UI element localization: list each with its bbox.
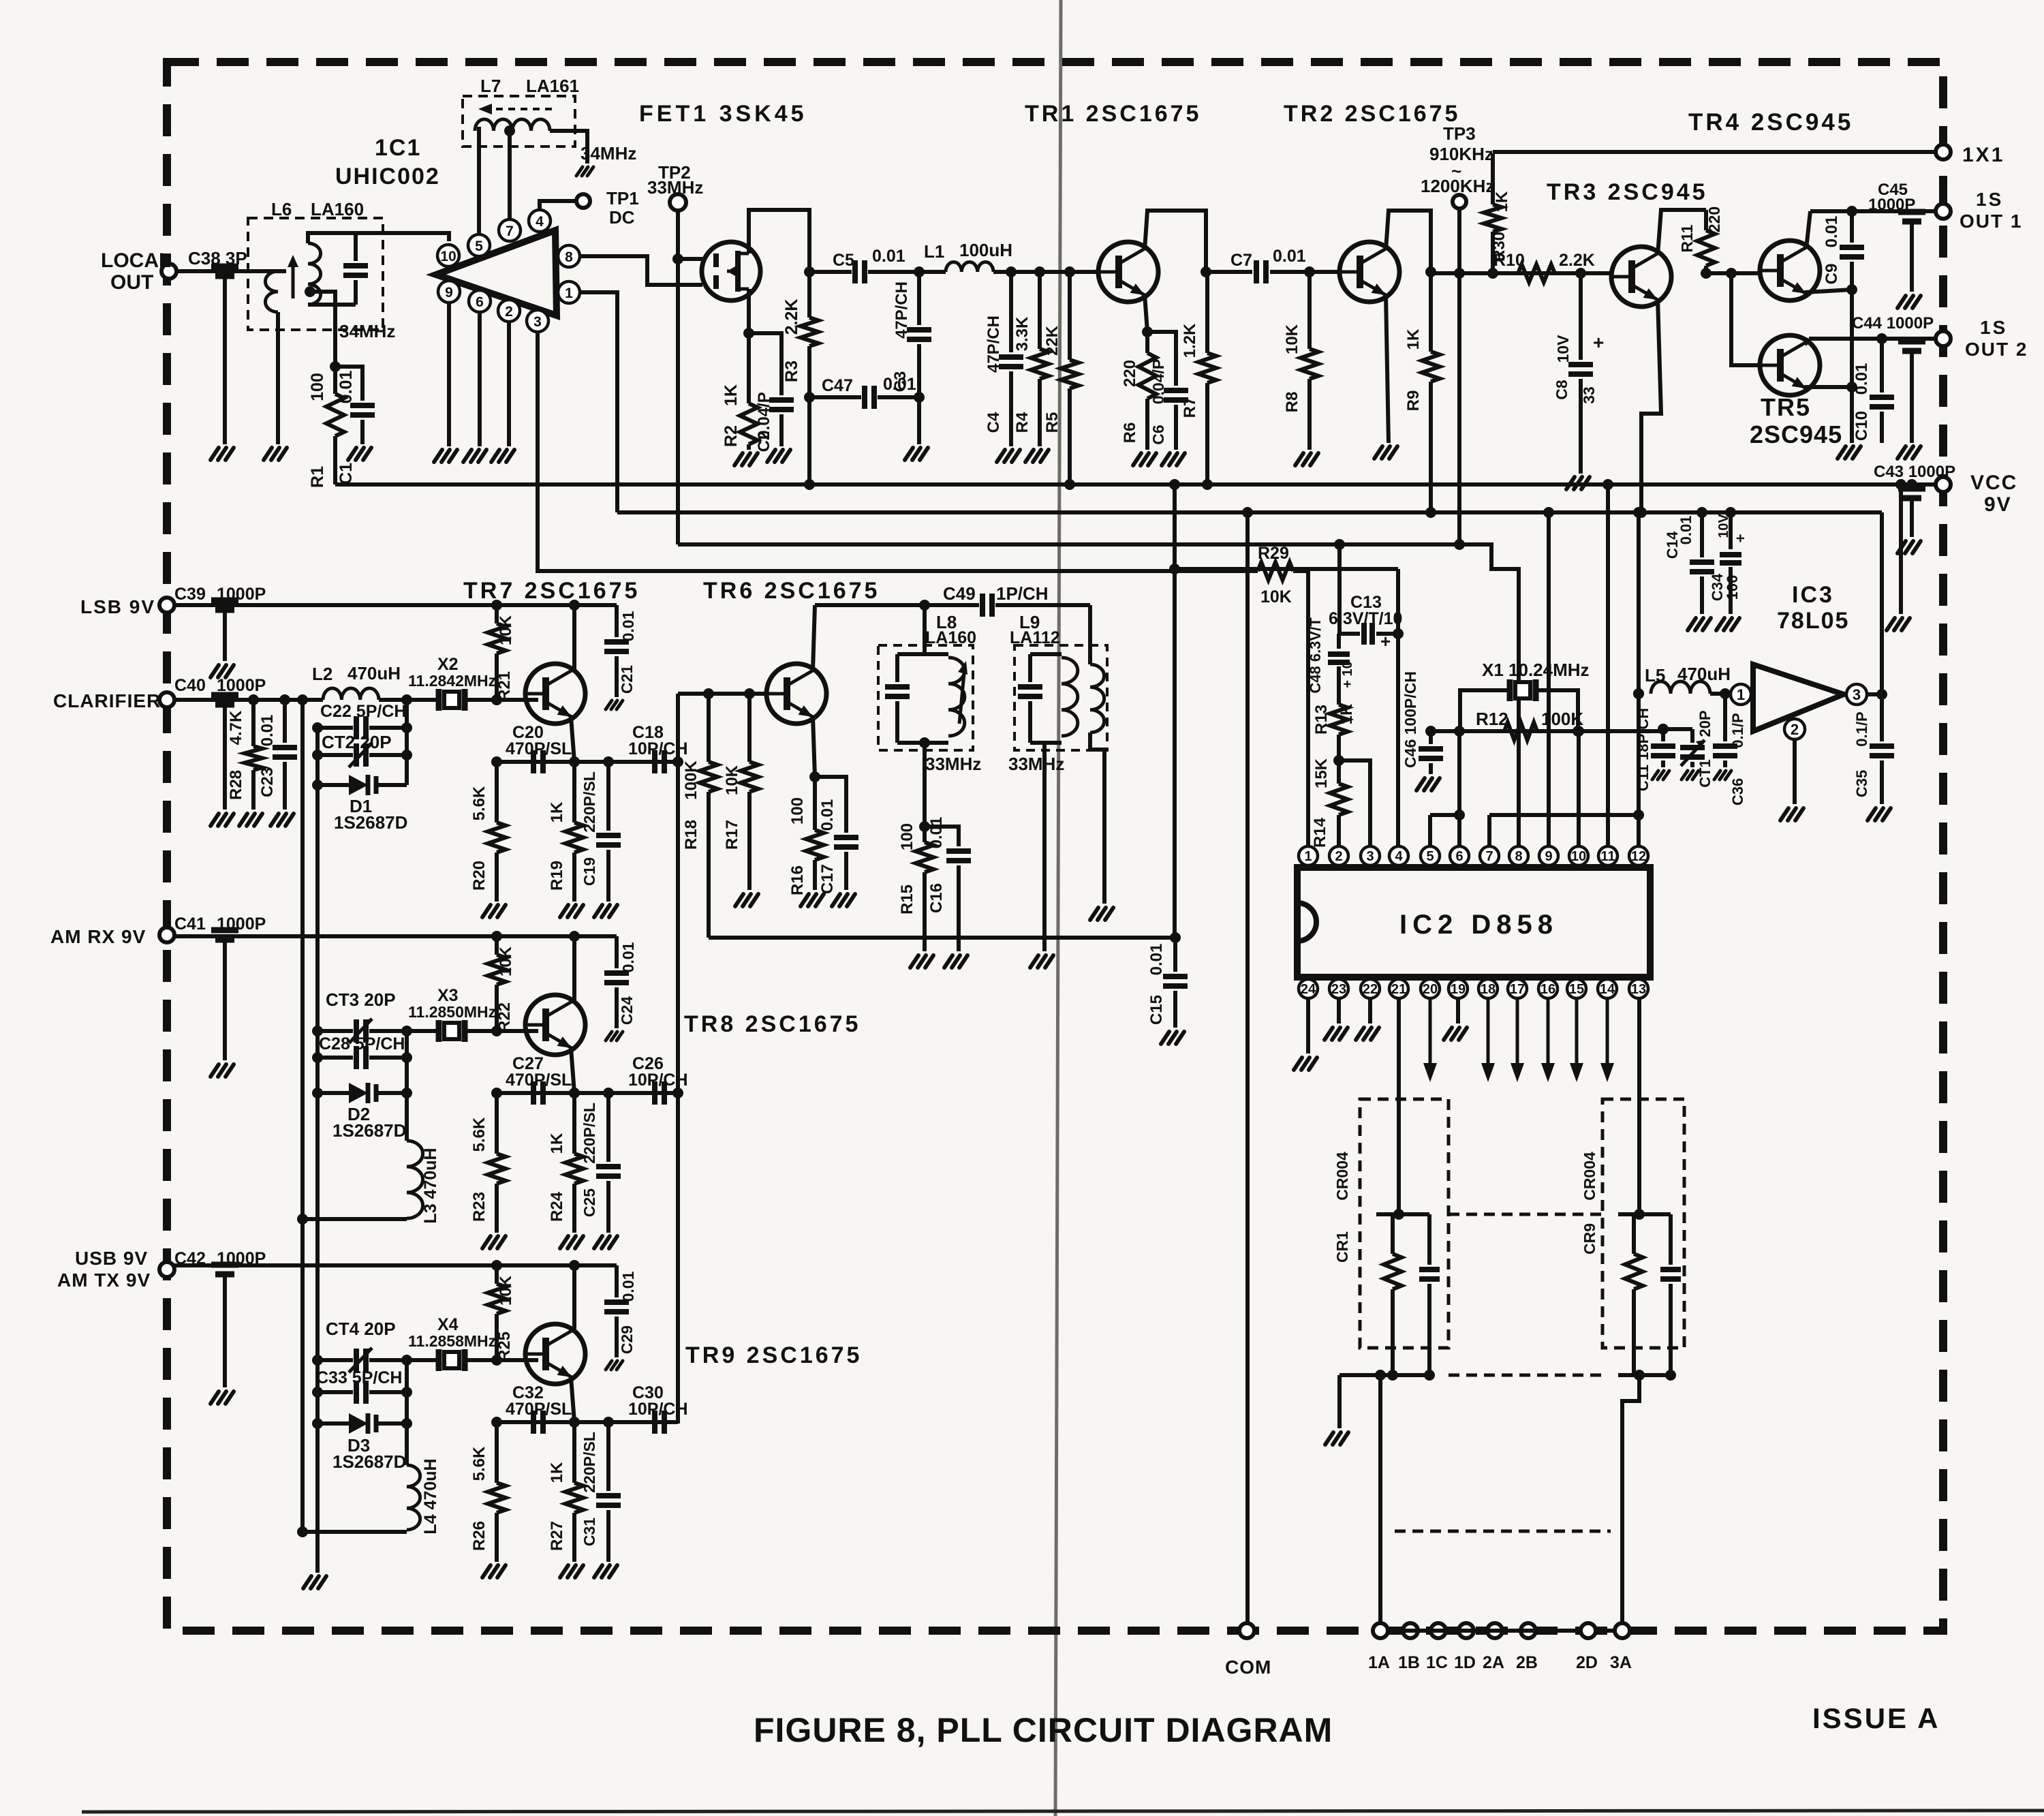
- wire pin3 out: [1867, 692, 1882, 696]
- pin 9 IC2: [1539, 846, 1558, 865]
- svg-text:C6: C6: [1149, 425, 1167, 444]
- svg-text:FIGURE 8, PLL CIRCUIT DIAGRAM: FIGURE 8, PLL CIRCUIT DIAGRAM: [754, 1711, 1333, 1749]
- TR5 emitter: [1805, 385, 1852, 389]
- pin 1: [558, 281, 580, 303]
- capacitor C19: [606, 762, 610, 831]
- wire pin16 arrow: [1547, 998, 1550, 1066]
- svg-text:23: 23: [1331, 982, 1346, 997]
- ground C24: [606, 1032, 612, 1041]
- relay CR1 box: [1360, 1099, 1449, 1348]
- svg-text:C19: C19: [580, 857, 598, 886]
- pin 2 IC3: [1784, 719, 1805, 739]
- svg-text:CR9: CR9: [1581, 1223, 1598, 1255]
- TR5 collector out2: [1805, 339, 1809, 345]
- terminal 3A: [1615, 1623, 1630, 1638]
- svg-text:C17: C17: [818, 864, 837, 894]
- svg-text:R11: R11: [1678, 224, 1696, 252]
- node rail a: [491, 1260, 502, 1271]
- ground C46: [1416, 778, 1425, 790]
- svg-text:R26: R26: [470, 1521, 489, 1551]
- svg-text:0.01: 0.01: [258, 715, 277, 747]
- wire R18 line: [709, 936, 1175, 940]
- ground C1: [348, 448, 356, 460]
- ground C19: [594, 905, 602, 917]
- ground C44: [1898, 446, 1906, 459]
- pin 18 IC2: [1478, 979, 1498, 998]
- L6 center tap: [305, 286, 315, 297]
- capacitor C47: [809, 395, 861, 399]
- pin 7: [499, 219, 521, 241]
- inductor L7 box: [463, 96, 575, 147]
- wire pin5 jumper: [1428, 815, 1432, 846]
- TR2 emitter gnd: [1386, 294, 1389, 443]
- ground C35: [1868, 808, 1876, 820]
- pin 20 IC2: [1421, 979, 1440, 998]
- pin 3 IC2: [1361, 846, 1380, 865]
- svg-text:C11 18P/CH: C11 18P/CH: [1635, 708, 1652, 791]
- node TR1 out: [1201, 266, 1211, 277]
- pin 10 IC2: [1569, 846, 1588, 865]
- inductor L1: [946, 262, 993, 272]
- svg-text:C44 1000P: C44 1000P: [1852, 314, 1934, 333]
- terminal CLARIFIER: [159, 692, 174, 707]
- terminal VCC: [1936, 477, 1951, 492]
- capacitor C7: [1254, 260, 1259, 283]
- svg-text:470uH: 470uH: [1677, 664, 1731, 684]
- capacitor C4: [1009, 272, 1013, 352]
- ground R19: [560, 905, 568, 917]
- svg-text:1A: 1A: [1368, 1653, 1390, 1672]
- node C15: [1170, 932, 1181, 943]
- svg-text:UHIC002: UHIC002: [335, 164, 440, 189]
- resistor R24: [572, 1093, 576, 1154]
- svg-text:0.01: 0.01: [818, 799, 837, 831]
- svg-text:C21: C21: [618, 665, 636, 694]
- resistor R13: [1337, 673, 1341, 705]
- svg-text:20: 20: [1423, 982, 1438, 997]
- svg-text:CT3 20P: CT3 20P: [326, 989, 396, 1010]
- wire pin6 lead: [1457, 731, 1461, 846]
- wire xtal-base TR7: [465, 698, 538, 702]
- wire c-row TR7: [497, 760, 678, 764]
- ground R28: [239, 814, 247, 826]
- dashed link bottom: [1449, 1374, 1602, 1377]
- L6 internal capacitor: [354, 233, 358, 261]
- wire pin19 gnd: [1456, 998, 1460, 1024]
- capacitor C41: [211, 927, 238, 934]
- node C8: [1575, 268, 1586, 279]
- svg-text:10K: 10K: [1260, 587, 1292, 606]
- resistor R14: [1330, 784, 1348, 815]
- resistor R18: [707, 694, 711, 762]
- pin 8 IC2: [1509, 846, 1528, 865]
- svg-text:18: 18: [1481, 982, 1496, 997]
- capacitor C29: [615, 1265, 619, 1297]
- wire conn row b: [1596, 1629, 1615, 1633]
- svg-text:3: 3: [1366, 849, 1374, 864]
- svg-text:TR6 2SC1675: TR6 2SC1675: [703, 578, 880, 604]
- terminal COM: [1239, 1623, 1254, 1638]
- wire pin2 chain: [1337, 823, 1341, 846]
- svg-text:22: 22: [1363, 982, 1378, 997]
- svg-text:2: 2: [1791, 721, 1799, 738]
- pin 5: [468, 234, 490, 256]
- wire osc output bus: [676, 694, 680, 1423]
- svg-text:R1: R1: [308, 466, 327, 488]
- svg-text:470P/SL: 470P/SL: [506, 1071, 572, 1090]
- L6 arrow: [292, 260, 295, 298]
- varactor CT4: [318, 1358, 353, 1362]
- svg-text:+: +: [1593, 332, 1604, 353]
- svg-text:0.01: 0.01: [1853, 363, 1871, 395]
- wire pin10 lead: [1577, 731, 1581, 846]
- L8 coil: [948, 658, 965, 736]
- wire rail-TR9: [167, 1263, 617, 1267]
- svg-text:CT2 20P: CT2 20P: [322, 732, 392, 752]
- ground CT1: [1682, 771, 1688, 780]
- node drain-col rail1: [804, 479, 815, 490]
- svg-text:R5: R5: [1043, 412, 1062, 433]
- inductor L6 box: [248, 218, 383, 330]
- capacitor C1: [335, 367, 362, 401]
- wire TR6 base: [678, 692, 766, 696]
- svg-text:VCC: VCC: [1970, 472, 2017, 494]
- svg-text:33MHz: 33MHz: [925, 754, 981, 774]
- svg-text:1: 1: [1304, 849, 1312, 864]
- wire collector TR9: [572, 1265, 576, 1330]
- wire xtal-base TR8: [465, 1029, 538, 1033]
- svg-text:C2: C2: [755, 431, 773, 452]
- capacitor C34 electrolytic: [1729, 512, 1733, 549]
- svg-text:L6: L6: [271, 199, 292, 219]
- ground pin22: [1356, 1028, 1364, 1040]
- capacitor C5: [852, 260, 858, 283]
- svg-text:1S: 1S: [1980, 317, 2007, 338]
- ground emitters: [1838, 446, 1846, 459]
- node C47 left: [804, 392, 815, 403]
- svg-text:4: 4: [536, 214, 544, 230]
- terminal OUT1: [1936, 204, 1951, 219]
- svg-text:1X1: 1X1: [1962, 144, 2004, 166]
- wire L8 tap: [923, 743, 927, 827]
- ground C42: [211, 1391, 219, 1404]
- svg-text:2.2K: 2.2K: [1559, 251, 1595, 270]
- node R4: [1034, 266, 1045, 277]
- terminal 2B: [1521, 1623, 1536, 1638]
- svg-text:19: 19: [1451, 982, 1466, 997]
- svg-text:0.01: 0.01: [619, 611, 637, 641]
- transistor TR1: [1098, 242, 1158, 302]
- terminal 1X1: [1936, 144, 1951, 159]
- TR1 collector loop: [1145, 211, 1206, 272]
- capacitor C44: [1898, 339, 1925, 345]
- wire pin14 arrow: [1606, 998, 1609, 1066]
- svg-text:L3 470uH: L3 470uH: [421, 1148, 440, 1223]
- svg-text:100: 100: [898, 823, 916, 850]
- capacitor C49: [980, 594, 985, 617]
- svg-text:1K: 1K: [1337, 703, 1356, 724]
- svg-text:8: 8: [1515, 849, 1522, 864]
- node L5 left: [1633, 688, 1644, 699]
- capacitor C3: [917, 272, 921, 325]
- wire drain col rail1: [807, 397, 811, 484]
- inductor L4: [407, 1465, 420, 1530]
- resistor R16: [813, 777, 817, 830]
- pin 6 IC2: [1450, 846, 1469, 865]
- resistor R15: [923, 827, 927, 842]
- resistor R2: [747, 333, 751, 403]
- wire 3A drop: [1622, 1375, 1639, 1623]
- svg-text:1C1: 1C1: [375, 135, 421, 161]
- wire bus444: [300, 700, 305, 1532]
- varactor CT2: [318, 753, 353, 757]
- resistor R30: [1491, 153, 1495, 204]
- ground C8: [1566, 477, 1575, 489]
- capacitor C36: [1723, 694, 1727, 741]
- svg-text:11.2842MHz: 11.2842MHz: [408, 672, 496, 690]
- pin 16 IC2: [1538, 979, 1558, 998]
- wire TR1-C7: [1206, 270, 1252, 274]
- svg-text:5.6K: 5.6K: [470, 1117, 489, 1152]
- capacitor C46: [1429, 731, 1433, 744]
- svg-text:X1 10.24MHz: X1 10.24MHz: [1482, 660, 1590, 680]
- svg-text:2: 2: [505, 304, 513, 320]
- L7 arrow: [485, 108, 552, 110]
- pin 1 IC3: [1731, 684, 1751, 705]
- L8 cap: [895, 654, 899, 682]
- svg-text:9: 9: [1545, 849, 1552, 864]
- svg-text:AM TX 9V: AM TX 9V: [57, 1269, 151, 1291]
- wire emitter TR9: [571, 1377, 574, 1422]
- ground C25: [594, 1236, 602, 1248]
- capacitor C8 electrolytic: [1579, 273, 1583, 360]
- capacitor C17: [815, 777, 846, 833]
- svg-text:0.01: 0.01: [1147, 944, 1166, 976]
- svg-text:L7: L7: [480, 76, 501, 96]
- svg-text:24: 24: [1301, 982, 1316, 997]
- capacitor C35: [1880, 694, 1884, 741]
- svg-text:0.01: 0.01: [619, 1271, 637, 1302]
- svg-text:TR9 2SC1675: TR9 2SC1675: [685, 1342, 862, 1368]
- CR9 resistor: [1632, 1214, 1636, 1254]
- transistor TR8: [525, 995, 585, 1055]
- svg-text:TR8 2SC1675: TR8 2SC1675: [684, 1011, 861, 1037]
- wire C13 row: [1337, 544, 1342, 634]
- capacitor C13: [1340, 632, 1360, 636]
- svg-text:OUT: OUT: [110, 271, 153, 294]
- svg-text:CT1: CT1: [1697, 759, 1714, 788]
- wire emitter TR7: [571, 717, 574, 762]
- wire pin20 arrow: [1429, 998, 1432, 1066]
- svg-text:5: 5: [475, 238, 483, 254]
- svg-text:R13: R13: [1312, 705, 1331, 735]
- transistor TR2: [1340, 242, 1399, 302]
- wire pin15 arrow: [1575, 998, 1579, 1066]
- svg-text:0.04/P: 0.04/P: [1149, 359, 1167, 405]
- svg-text:R7: R7: [1181, 397, 1199, 418]
- svg-text:2: 2: [1335, 849, 1342, 864]
- resistor R26: [495, 1422, 499, 1483]
- svg-text:C8: C8: [1553, 380, 1570, 400]
- ground R26: [482, 1565, 491, 1578]
- svg-text:AM RX 9V: AM RX 9V: [50, 926, 146, 947]
- wire c-row TR8: [497, 1091, 678, 1095]
- wire vertA: [1173, 484, 1177, 938]
- svg-text:1K: 1K: [722, 384, 741, 406]
- svg-text:X4: X4: [437, 1315, 459, 1334]
- svg-text:220P/SL: 220P/SL: [580, 1103, 598, 1164]
- wire col597 TR9: [405, 1360, 409, 1465]
- wire TR2-TR3: [1431, 271, 1611, 275]
- svg-text:C43 1000P: C43 1000P: [1874, 463, 1955, 481]
- pin 2 IC2: [1329, 846, 1348, 865]
- ground C16: [944, 955, 953, 968]
- inductor L8 box: [878, 645, 973, 750]
- svg-text:34MHz: 34MHz: [580, 143, 636, 164]
- svg-text:6: 6: [1455, 849, 1463, 864]
- svg-text:TP1: TP1: [606, 188, 639, 209]
- node R8: [1304, 266, 1315, 277]
- svg-text:100K: 100K: [1541, 709, 1583, 729]
- L6 secondary coil: [308, 243, 321, 305]
- svg-text:220P/SL: 220P/SL: [580, 1432, 598, 1493]
- svg-text:34MHz: 34MHz: [339, 321, 395, 341]
- svg-text:C4: C4: [985, 412, 1003, 433]
- transistor TR7: [525, 664, 585, 724]
- svg-text:16: 16: [1540, 982, 1555, 997]
- ground R23: [482, 1236, 491, 1248]
- wire C46-R12 row: [1431, 729, 1663, 733]
- svg-text:100: 100: [1724, 575, 1741, 600]
- capacitor C21: [615, 605, 619, 637]
- svg-text:R20: R20: [470, 861, 489, 891]
- svg-text:R3: R3: [782, 360, 801, 382]
- svg-text:+: +: [1380, 631, 1391, 651]
- svg-text:TP3: TP3: [1443, 123, 1476, 144]
- wire IC3 out rail2: [1880, 512, 1884, 694]
- transistor TR5: [1760, 335, 1820, 395]
- resistor R3: [807, 272, 811, 318]
- inductor L9 box: [1015, 645, 1107, 750]
- L6 primary wire: [232, 269, 278, 273]
- svg-text:2SC945: 2SC945: [1750, 420, 1842, 448]
- svg-text:+: +: [1732, 534, 1749, 543]
- svg-text:0.1/P: 0.1/P: [1853, 711, 1870, 746]
- ground R2: [734, 453, 743, 465]
- svg-text:10K: 10K: [1283, 324, 1301, 354]
- FET1 source wire: [747, 289, 751, 333]
- L9 secondary: [1090, 664, 1104, 733]
- svg-text:LA112: LA112: [1010, 628, 1060, 647]
- resistor R20: [495, 762, 499, 822]
- wire X2-base: [465, 698, 538, 702]
- svg-text:220P/SL: 220P/SL: [580, 771, 598, 833]
- wire L5-pin1: [1710, 692, 1731, 696]
- capacitor C18: [652, 750, 657, 773]
- pin 17 IC2: [1508, 979, 1527, 998]
- L9 top: [1030, 652, 1062, 656]
- capacitor C25: [606, 1093, 610, 1162]
- capacitor C11: [1661, 729, 1665, 741]
- svg-text:+ 10: + 10: [1340, 661, 1355, 688]
- svg-text:R23: R23: [470, 1192, 489, 1222]
- ground pin19: [1444, 1028, 1452, 1040]
- CR1 bottom line: [1340, 1373, 1429, 1377]
- pin 10: [437, 245, 459, 266]
- ground R20: [482, 905, 491, 917]
- ground L9 sec: [1090, 908, 1098, 920]
- svg-text:20P: 20P: [1697, 710, 1714, 737]
- inductor L5: [1651, 681, 1710, 694]
- ground TR2: [1374, 446, 1382, 459]
- svg-text:1K: 1K: [1493, 191, 1511, 212]
- node R1/C1: [330, 361, 341, 372]
- svg-text:C9: C9: [1823, 264, 1841, 285]
- svg-text:IC3: IC3: [1792, 582, 1834, 608]
- svg-text:11.2858MHz: 11.2858MHz: [408, 1332, 496, 1350]
- svg-text:C33 5P/CH: C33 5P/CH: [316, 1368, 402, 1387]
- pin 19 IC2: [1449, 979, 1468, 998]
- svg-text:6.3V/T/10: 6.3V/T/10: [1329, 609, 1402, 628]
- ground C21: [606, 701, 612, 709]
- pin 5 IC2: [1421, 846, 1440, 865]
- wire col597 TR7: [405, 700, 409, 785]
- CR9 capacitor: [1669, 1214, 1673, 1265]
- resistor R10: [1518, 264, 1555, 282]
- capacitor C33: [318, 1390, 353, 1394]
- ground R6: [1133, 453, 1141, 465]
- TR2 collector loop: [1386, 211, 1431, 272]
- regulator IC3 triangle: [1753, 664, 1844, 731]
- svg-text:33MHz: 33MHz: [647, 177, 703, 198]
- svg-text:1D: 1D: [1454, 1653, 1476, 1672]
- L9 secondary bottom: [1090, 733, 1104, 904]
- crystal X1 loop: [1460, 690, 1510, 731]
- wire pin4 feed: [1175, 567, 1398, 571]
- wire TP2 gate1: [676, 211, 680, 544]
- svg-text:1K: 1K: [548, 1462, 566, 1483]
- L9 bottom: [1030, 741, 1062, 745]
- op-amp IC1 UHIC002 triangle: [436, 230, 557, 316]
- resistor R12: [1504, 722, 1537, 740]
- svg-text:TR3 2SC945: TR3 2SC945: [1547, 179, 1708, 205]
- svg-text:1S: 1S: [1976, 189, 2003, 210]
- L6 secondary top wire: [308, 233, 449, 243]
- svg-text:33MHz: 33MHz: [1008, 754, 1064, 774]
- wire rail-TR7: [167, 603, 617, 607]
- svg-text:CT4 20P: CT4 20P: [326, 1319, 396, 1339]
- capacitor C9: [1850, 211, 1854, 243]
- svg-text:10: 10: [1571, 849, 1586, 864]
- wire L1-TR1: [993, 270, 1098, 274]
- pin 3: [527, 310, 548, 332]
- svg-text:C48 6.3V/T: C48 6.3V/T: [1307, 617, 1324, 694]
- svg-text:CR1: CR1: [1333, 1231, 1351, 1263]
- svg-text:C10: C10: [1853, 411, 1871, 441]
- pin 2: [498, 300, 520, 322]
- svg-text:1000P: 1000P: [217, 585, 266, 604]
- wire OUT2: [1809, 337, 1936, 341]
- node C13 pin4: [1393, 628, 1404, 639]
- ground C17: [832, 894, 840, 906]
- terminal AM RX 9V: [159, 927, 174, 942]
- svg-text:15: 15: [1569, 982, 1584, 997]
- TR4 emitter: [1805, 290, 1852, 292]
- wire C5-L1: [868, 270, 946, 274]
- ground C41: [211, 1064, 219, 1077]
- svg-text:L2: L2: [312, 664, 332, 684]
- svg-text:1000P: 1000P: [217, 914, 266, 934]
